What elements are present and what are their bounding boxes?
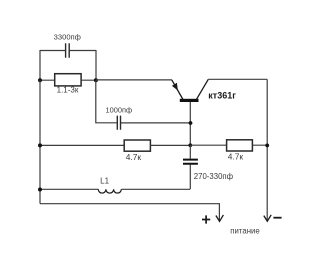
node: junction dot base row2 [188,143,192,147]
capacitor C1 plates [66,43,70,58]
wire: L1 to C3 bottom [121,188,190,190]
label питание [230,226,259,235]
label plus sign [202,215,210,223]
svg-text:питание: питание [230,226,259,235]
svg-text:270-330пф: 270-330пф [194,172,234,181]
wire: C2 branch vertical from node B [96,80,117,123]
resistor R3 body [227,140,253,151]
resistor R1 body [55,74,81,86]
wire: top-left loop top (cap branch) [40,50,96,52]
label C2 1000пф [106,105,133,114]
resistor R2 body [124,140,150,151]
wire: bottom rail [40,204,219,221]
terminal: plus arrow head [216,215,224,222]
wire: collector to right rail [208,78,267,80]
wire: right vertical of loop [95,50,97,80]
wire: L1 row left segment [40,188,98,190]
node: junction dot right rail row2 [265,144,269,148]
node: junction dot left rail row3 [38,188,42,192]
wire: base vertical to C3 [189,145,191,158]
svg-text:4.7к: 4.7к [228,152,244,162]
node: base/C2 junction dot [189,121,193,125]
svg-text:L1: L1 [100,177,109,186]
terminal: minus arrow head [264,215,271,221]
wire: resistor R1 row [40,79,96,81]
wire: C3 bottom vertical [189,165,191,190]
node: junction dot right of R1 [94,78,98,82]
inductor L1 coil [98,189,121,193]
wire: C2 to base node [121,122,190,124]
wire: R3 row [190,144,267,146]
transistor Q1 collector diagonal [197,79,209,99]
wire: emitter feed (top horizontal to transistor) [96,79,172,81]
transistor Q1 emitter arrow [172,83,178,91]
node: junction dot left of R1 [38,78,42,82]
wire: R2 row left segment [40,144,124,146]
svg-text:1.1-3к: 1.1-3к [57,85,79,94]
capacitor C2 plates [117,116,120,130]
label L1 [100,177,109,186]
svg-text:4.7к: 4.7к [126,152,142,162]
label R3 4.7к [228,152,244,162]
wire: R2 to base node [150,144,190,146]
wire: base vertical upper [189,102,191,145]
label C1 3300пф [54,32,81,41]
svg-text:кт361г: кт361г [208,91,236,101]
wire: left rail vertical [39,80,41,203]
label Q1 кт361г [208,91,236,101]
wire: left vertical of loop [39,50,41,80]
label R1 1.1-3к [57,85,79,94]
node: junction dot left rail row2 [38,143,42,147]
capacitor C3 plates [183,160,198,164]
wire: right rail vertical [266,79,268,220]
svg-text:3300пф: 3300пф [54,32,81,41]
svg-text:1000пф: 1000пф [106,105,133,114]
transistor Q1 base bar [180,99,199,102]
label minus sign [273,217,281,219]
label C3 270-330пф [194,172,234,181]
label R2 4.7к [126,152,142,162]
transistor Q1 emitter diagonal [172,80,183,100]
